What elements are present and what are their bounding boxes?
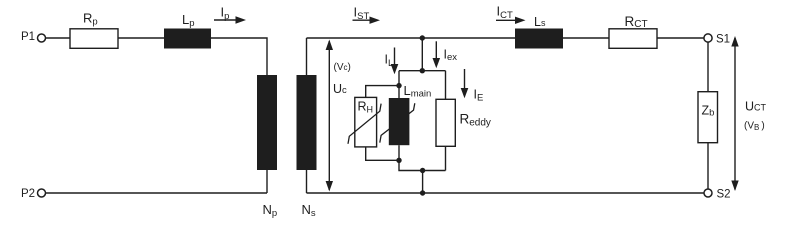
svg-text:RCT: RCT bbox=[625, 14, 648, 30]
wire Ls to RCT bbox=[563, 37, 609, 39]
resistor RCT bbox=[609, 14, 657, 48]
svg-text:Iex: Iex bbox=[444, 48, 458, 64]
burden impedance Zb bbox=[698, 92, 718, 143]
svg-text:Np: Np bbox=[263, 202, 278, 219]
wire Ns to bottom rail bbox=[306, 170, 308, 193]
svg-text:P1: P1 bbox=[21, 31, 35, 43]
wire Reddy bottom bbox=[445, 146, 447, 170]
wire node to Lmain bbox=[398, 86, 400, 98]
wire RCT to S1 bbox=[657, 37, 704, 39]
wire Lmain bottom to node A bbox=[398, 145, 400, 160]
wire bottom rail secondary bbox=[307, 192, 705, 194]
inductor Ls bbox=[515, 15, 563, 49]
inductor Lp bbox=[164, 12, 211, 49]
wire P1 to Rp bbox=[46, 37, 70, 39]
inductor Lmain (saturable) bbox=[380, 83, 432, 145]
svg-text:IE: IE bbox=[474, 87, 484, 103]
wire top rail secondary to Ls bbox=[307, 37, 516, 39]
current arrow ICT bbox=[496, 4, 526, 25]
wire node A to node B and Reddy bottom bbox=[399, 160, 446, 170]
voltage arrow Uc bbox=[326, 40, 351, 192]
wire Ns to top rail bbox=[306, 38, 308, 75]
svg-text:(Vc): (Vc) bbox=[334, 62, 351, 73]
terminal P2 bbox=[21, 188, 46, 200]
terminal P1 bbox=[21, 31, 46, 43]
node A junction RH Lmain bottom bbox=[396, 158, 401, 163]
svg-text:Lmain: Lmain bbox=[404, 83, 432, 100]
svg-text:S1: S1 bbox=[716, 34, 730, 46]
resistor Reddy bbox=[436, 99, 491, 146]
node junction RH Lmain bbox=[396, 83, 401, 88]
current arrow Ip bbox=[214, 5, 246, 24]
terminal S2 bbox=[704, 189, 731, 201]
node B junction bbox=[420, 168, 425, 173]
resistor Rp bbox=[70, 11, 118, 49]
wire bus to Reddy bbox=[445, 71, 447, 100]
svg-text:ICT: ICT bbox=[497, 4, 513, 22]
wire Np to bottom rail bbox=[266, 170, 268, 193]
svg-text:P2: P2 bbox=[21, 188, 35, 200]
wire Zb to S2 bbox=[707, 143, 709, 189]
primary winding Np bbox=[257, 75, 277, 219]
terminal S1 bbox=[704, 34, 730, 46]
node junction on top rail bbox=[420, 35, 425, 40]
wire node to RH bbox=[366, 86, 399, 98]
current arrow IL bbox=[385, 48, 399, 75]
svg-text:Rp: Rp bbox=[83, 11, 98, 28]
wire Rp to Lp bbox=[118, 37, 164, 39]
svg-text:Ns: Ns bbox=[302, 202, 316, 219]
node junction magnetizing bus bbox=[420, 68, 425, 73]
current arrow IE bbox=[461, 69, 484, 103]
svg-text:UCT: UCT bbox=[745, 100, 767, 114]
current arrow IST bbox=[353, 5, 381, 24]
wire S1 to Zb bbox=[707, 42, 709, 91]
secondary winding Ns bbox=[297, 75, 317, 219]
resistor RH (hysteresis, nonlinear) bbox=[348, 97, 381, 146]
current arrow Iex bbox=[433, 41, 458, 68]
svg-text:IST: IST bbox=[354, 5, 370, 23]
wire Lp to Np bbox=[211, 38, 267, 75]
wire RH bottom to node A bbox=[366, 147, 399, 160]
svg-text:Uc: Uc bbox=[333, 82, 347, 96]
svg-text:(VB ): (VB ) bbox=[744, 121, 765, 133]
svg-text:Reddy: Reddy bbox=[460, 112, 491, 129]
wire node B to bottom rail bbox=[422, 171, 424, 194]
svg-text:Ls: Ls bbox=[534, 15, 546, 29]
wire bottom rail primary bbox=[46, 192, 267, 194]
voltage arrow UCT bbox=[731, 36, 766, 191]
wire magnetizing bus horizontal bbox=[399, 70, 446, 72]
svg-text:Lp: Lp bbox=[182, 12, 195, 29]
node C junction on bottom rail bbox=[420, 190, 425, 195]
wire magnetizing branch from top rail bbox=[421, 38, 423, 71]
svg-text:S2: S2 bbox=[717, 189, 731, 201]
wire bus to node Lmain bbox=[398, 71, 400, 86]
